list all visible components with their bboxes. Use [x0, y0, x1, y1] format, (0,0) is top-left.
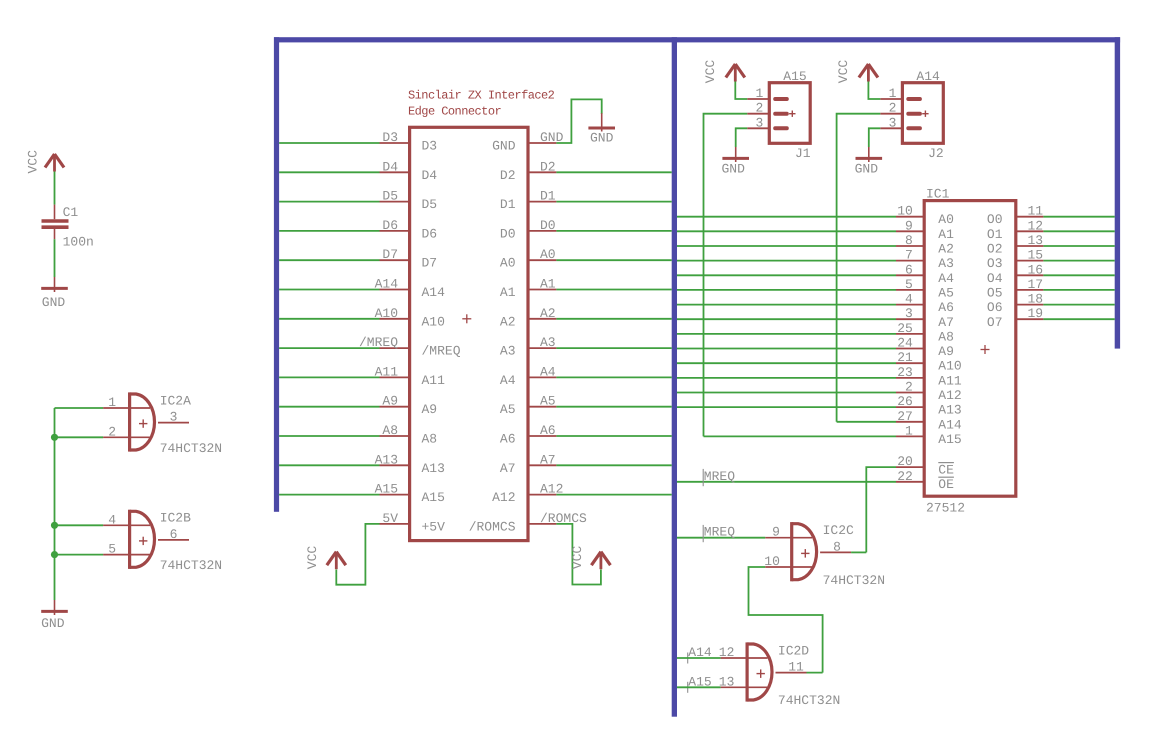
svg-text:A8: A8: [422, 432, 438, 447]
svg-text:A7: A7: [500, 461, 516, 476]
svg-text:MREQ: MREQ: [704, 469, 735, 484]
svg-text:5V: 5V: [382, 511, 398, 526]
svg-text:A2: A2: [540, 306, 556, 321]
svg-text:D7: D7: [382, 247, 398, 262]
svg-text:A3: A3: [938, 256, 954, 271]
svg-text:13: 13: [1028, 233, 1044, 248]
svg-text:2: 2: [108, 424, 116, 439]
svg-text:2: 2: [755, 101, 763, 116]
svg-text:A9: A9: [422, 402, 438, 417]
svg-text:CE: CE: [938, 463, 954, 478]
svg-text:12: 12: [719, 645, 735, 660]
svg-text:22: 22: [897, 469, 913, 484]
svg-text:Edge Connector: Edge Connector: [408, 104, 501, 118]
svg-text:100n: 100n: [63, 235, 94, 250]
svg-text:A5: A5: [500, 402, 516, 417]
svg-text:C1: C1: [63, 205, 79, 220]
svg-text:A12: A12: [540, 482, 563, 497]
svg-text:27: 27: [897, 409, 913, 424]
svg-text:O2: O2: [987, 242, 1003, 257]
svg-text:O6: O6: [987, 300, 1003, 315]
svg-text:6: 6: [905, 262, 913, 277]
svg-text:24: 24: [897, 336, 913, 351]
svg-text:9: 9: [772, 525, 780, 540]
svg-text:8: 8: [905, 233, 913, 248]
svg-text:D5: D5: [382, 189, 398, 204]
svg-text:A4: A4: [540, 364, 556, 379]
svg-text:10: 10: [897, 204, 913, 219]
svg-text:15: 15: [1028, 248, 1044, 263]
svg-text:D3: D3: [382, 130, 398, 145]
svg-text:J1: J1: [795, 146, 811, 161]
svg-text:A7: A7: [540, 452, 556, 467]
svg-text:A4: A4: [500, 373, 516, 388]
svg-text:A1: A1: [938, 227, 954, 242]
svg-text:12: 12: [1028, 218, 1044, 233]
svg-text:MREQ: MREQ: [704, 525, 735, 540]
svg-text:74HCT32N: 74HCT32N: [160, 558, 222, 573]
svg-text:A7: A7: [938, 315, 954, 330]
svg-text:1: 1: [755, 86, 763, 101]
svg-text:A14: A14: [422, 285, 446, 300]
svg-text:O5: O5: [987, 285, 1003, 300]
svg-text:A8: A8: [382, 423, 398, 438]
svg-text:A15: A15: [938, 432, 961, 447]
svg-text:VCC: VCC: [703, 60, 718, 84]
svg-text:4: 4: [905, 292, 913, 307]
svg-text:IC2B: IC2B: [160, 511, 191, 526]
svg-text:IC2C: IC2C: [823, 523, 854, 538]
svg-text:74HCT32N: 74HCT32N: [778, 693, 840, 708]
svg-text:A3: A3: [540, 335, 556, 350]
svg-text:GND: GND: [492, 139, 516, 154]
svg-text:A14: A14: [938, 417, 962, 432]
svg-text:A12: A12: [938, 388, 961, 403]
svg-text:A0: A0: [938, 212, 954, 227]
svg-text:19: 19: [1028, 306, 1044, 321]
svg-text:25: 25: [897, 321, 913, 336]
svg-text:A2: A2: [938, 242, 954, 257]
svg-text:GND: GND: [540, 130, 564, 145]
svg-text:A3: A3: [500, 344, 516, 359]
svg-text:O1: O1: [987, 227, 1003, 242]
svg-text:A6: A6: [938, 300, 954, 315]
svg-text:13: 13: [719, 674, 735, 689]
svg-text:OE: OE: [938, 477, 954, 492]
svg-text:A12: A12: [492, 490, 515, 505]
svg-text:A10: A10: [938, 359, 961, 374]
svg-text:1: 1: [905, 423, 913, 438]
svg-text:18: 18: [1028, 292, 1044, 307]
svg-text:/ROMCS: /ROMCS: [469, 519, 516, 534]
svg-text:23: 23: [897, 365, 913, 380]
svg-text:17: 17: [1028, 277, 1044, 292]
svg-text:27512: 27512: [926, 501, 965, 516]
svg-text:74HCT32N: 74HCT32N: [160, 441, 222, 456]
svg-text:A9: A9: [382, 394, 398, 409]
svg-text:A9: A9: [938, 344, 954, 359]
svg-text:D0: D0: [540, 218, 556, 233]
svg-text:D6: D6: [422, 226, 438, 241]
svg-text:D7: D7: [422, 256, 438, 271]
svg-text:A10: A10: [422, 314, 445, 329]
svg-text:IC2A: IC2A: [160, 393, 191, 408]
svg-text:A5: A5: [938, 285, 954, 300]
svg-text:3: 3: [905, 306, 913, 321]
svg-text:7: 7: [905, 248, 913, 263]
svg-text:20: 20: [897, 454, 913, 469]
svg-text:GND: GND: [42, 295, 66, 310]
svg-text:VCC: VCC: [25, 150, 40, 174]
svg-text:A2: A2: [500, 314, 516, 329]
svg-text:GND: GND: [855, 162, 879, 177]
svg-text:A6: A6: [500, 432, 516, 447]
svg-text:GND: GND: [590, 131, 614, 146]
svg-text:/ROMCS: /ROMCS: [540, 511, 587, 526]
svg-text:1: 1: [108, 395, 116, 410]
svg-text:O0: O0: [987, 212, 1003, 227]
svg-text:A11: A11: [422, 373, 446, 388]
svg-text:A13: A13: [938, 403, 961, 418]
svg-text:A1: A1: [540, 277, 556, 292]
svg-text:2: 2: [905, 380, 913, 395]
svg-text:8: 8: [833, 539, 841, 554]
svg-text:D0: D0: [500, 226, 516, 241]
svg-text:A15: A15: [783, 69, 806, 84]
svg-text:A8: A8: [938, 329, 954, 344]
svg-text:11: 11: [788, 660, 804, 675]
svg-text:3: 3: [889, 115, 897, 130]
svg-text:A1: A1: [500, 285, 516, 300]
svg-text:26: 26: [897, 394, 913, 409]
svg-text:D1: D1: [500, 197, 516, 212]
svg-text:16: 16: [1028, 262, 1044, 277]
svg-text:3: 3: [755, 115, 763, 130]
svg-text:J2: J2: [928, 146, 944, 161]
svg-text:A6: A6: [540, 423, 556, 438]
svg-text:11: 11: [1028, 204, 1044, 219]
svg-text:74HCT32N: 74HCT32N: [823, 573, 885, 588]
svg-text:2: 2: [889, 101, 897, 116]
svg-text:Sinclair ZX Interface2: Sinclair ZX Interface2: [408, 89, 555, 103]
svg-text:A13: A13: [422, 461, 445, 476]
svg-text:10: 10: [764, 554, 780, 569]
svg-text:5: 5: [108, 542, 116, 557]
svg-text:D2: D2: [500, 168, 516, 183]
svg-text:D4: D4: [382, 159, 398, 174]
svg-text:D2: D2: [540, 159, 556, 174]
svg-text:VCC: VCC: [305, 546, 320, 570]
svg-text:IC1: IC1: [926, 186, 950, 201]
svg-text:VCC: VCC: [570, 546, 585, 570]
svg-text:1: 1: [889, 86, 897, 101]
svg-text:D6: D6: [382, 218, 398, 233]
svg-text:A0: A0: [540, 247, 556, 262]
svg-text:A11: A11: [938, 373, 962, 388]
svg-text:VCC: VCC: [836, 60, 851, 84]
svg-text:4: 4: [108, 512, 116, 527]
svg-text:9: 9: [905, 218, 913, 233]
svg-text:/MREQ: /MREQ: [422, 344, 461, 359]
svg-text:6: 6: [170, 527, 178, 542]
svg-text:D4: D4: [422, 168, 438, 183]
svg-text:21: 21: [897, 350, 913, 365]
svg-text:D3: D3: [422, 139, 438, 154]
svg-text:5: 5: [905, 277, 913, 292]
svg-text:D5: D5: [422, 197, 438, 212]
svg-text:A5: A5: [540, 394, 556, 409]
svg-text:+5V: +5V: [422, 519, 446, 534]
svg-text:A15: A15: [422, 490, 445, 505]
svg-text:O3: O3: [987, 256, 1003, 271]
svg-text:3: 3: [170, 410, 178, 425]
svg-text:D1: D1: [540, 189, 556, 204]
svg-text:O4: O4: [987, 271, 1003, 286]
svg-text:A4: A4: [938, 271, 954, 286]
svg-text:GND: GND: [721, 162, 745, 177]
svg-text:GND: GND: [41, 616, 65, 631]
svg-text:A0: A0: [500, 256, 516, 271]
svg-text:IC2D: IC2D: [778, 643, 809, 658]
svg-text:O7: O7: [987, 315, 1003, 330]
svg-text:A14: A14: [916, 69, 940, 84]
